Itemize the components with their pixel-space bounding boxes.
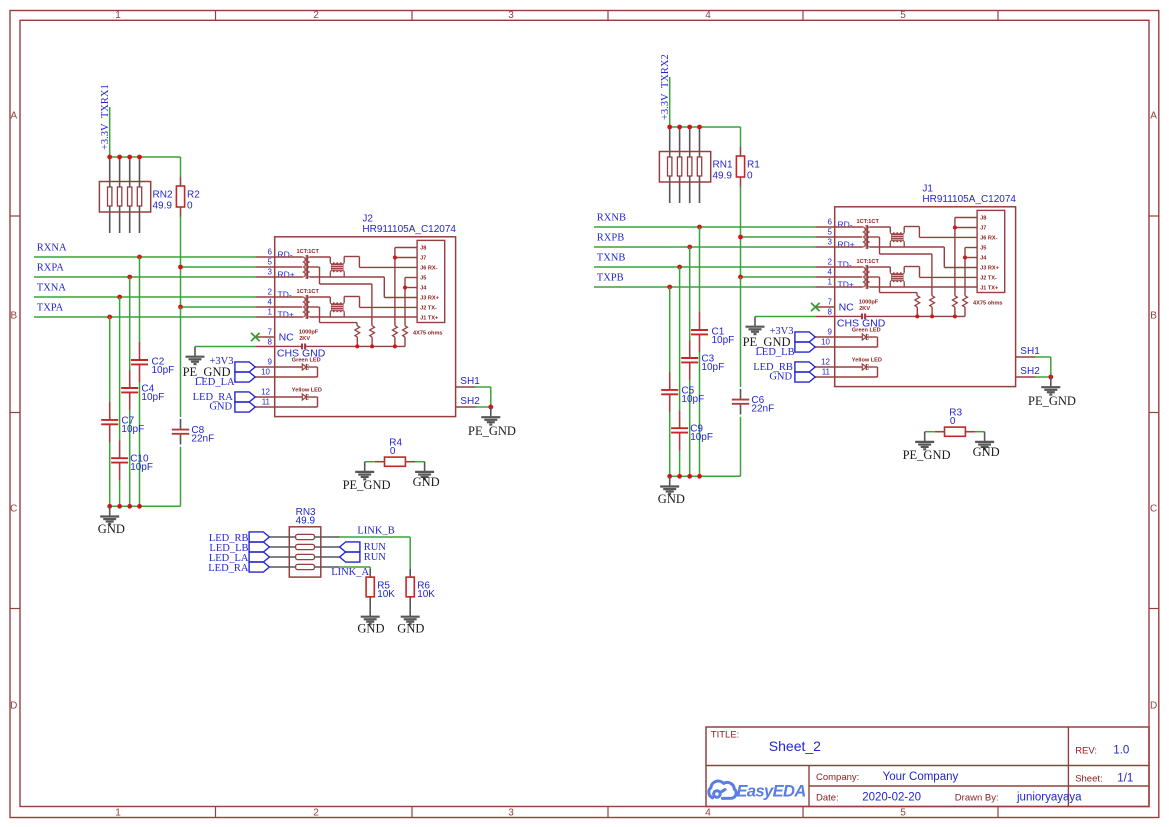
- svg-text:9: 9: [828, 327, 833, 336]
- svg-text:GND: GND: [357, 621, 384, 635]
- svg-text:49.9: 49.9: [153, 201, 173, 212]
- svg-text:3: 3: [828, 237, 833, 246]
- svg-text:PE_GND: PE_GND: [903, 448, 951, 462]
- svg-text:LED_RA: LED_RA: [208, 563, 249, 574]
- svg-text:J4: J4: [420, 286, 427, 292]
- svg-text:3: 3: [508, 10, 514, 21]
- svg-text:22nF: 22nF: [191, 434, 214, 445]
- svg-text:J3 RX+: J3 RX+: [980, 266, 1000, 272]
- svg-text:RXNA: RXNA: [37, 242, 67, 253]
- svg-text:8: 8: [828, 307, 833, 316]
- svg-text:Drawn By:: Drawn By:: [955, 792, 999, 803]
- svg-text:1CT:1CT: 1CT:1CT: [857, 259, 880, 265]
- svg-text:GND: GND: [413, 475, 440, 489]
- svg-text:REV:: REV:: [1075, 745, 1097, 756]
- svg-text:D: D: [10, 701, 17, 712]
- svg-text:3: 3: [268, 267, 273, 276]
- svg-text:J5: J5: [980, 246, 986, 252]
- svg-text:1CT:1CT: 1CT:1CT: [297, 249, 320, 255]
- svg-text:GND: GND: [769, 372, 792, 383]
- svg-text:TXPA: TXPA: [37, 302, 64, 313]
- svg-text:10pF: 10pF: [130, 462, 153, 473]
- svg-text:1000pF: 1000pF: [299, 330, 319, 336]
- svg-text:GND: GND: [973, 445, 1000, 459]
- svg-text:0: 0: [950, 416, 956, 427]
- svg-text:J6 RX-: J6 RX-: [420, 266, 438, 272]
- svg-text:2: 2: [313, 10, 319, 21]
- svg-text:5: 5: [900, 10, 906, 21]
- svg-text:+3V3: +3V3: [209, 356, 233, 367]
- svg-text:A: A: [1150, 111, 1157, 122]
- svg-text:10: 10: [821, 337, 830, 346]
- svg-text:4: 4: [828, 267, 833, 276]
- svg-text:Green LED: Green LED: [292, 357, 321, 363]
- svg-text:RUN: RUN: [364, 552, 387, 563]
- svg-text:B: B: [10, 311, 17, 322]
- svg-text:R2: R2: [187, 190, 200, 201]
- svg-text:4X75 ohms: 4X75 ohms: [973, 301, 1003, 307]
- svg-text:TXPB: TXPB: [597, 272, 624, 283]
- svg-text:J8: J8: [980, 216, 986, 222]
- svg-text:J2 TX-: J2 TX-: [420, 306, 437, 312]
- svg-text:8: 8: [268, 337, 273, 346]
- svg-text:10K: 10K: [377, 589, 395, 600]
- svg-text:J6 RX-: J6 RX-: [980, 236, 998, 242]
- svg-text:C: C: [1150, 504, 1157, 515]
- svg-text:1/1: 1/1: [1117, 772, 1133, 784]
- svg-text:12: 12: [261, 387, 270, 396]
- svg-text:J7: J7: [420, 256, 426, 262]
- svg-text:4: 4: [268, 297, 273, 306]
- svg-text:C: C: [10, 504, 17, 515]
- svg-text:J4: J4: [980, 256, 987, 262]
- svg-text:Company:: Company:: [816, 772, 859, 783]
- svg-text:5: 5: [900, 808, 906, 819]
- svg-text:4: 4: [705, 10, 711, 21]
- svg-text:2KV: 2KV: [859, 306, 870, 312]
- svg-text:RN2: RN2: [153, 190, 173, 201]
- svg-text:TD+: TD+: [278, 310, 294, 320]
- svg-text:TD+: TD+: [838, 280, 854, 290]
- svg-text:+3V3: +3V3: [769, 326, 793, 337]
- svg-text:3: 3: [508, 808, 514, 819]
- svg-text:RXNB: RXNB: [597, 212, 626, 223]
- svg-text:Green LED: Green LED: [852, 327, 881, 333]
- svg-text:7: 7: [828, 297, 833, 306]
- svg-text:4X75 ohms: 4X75 ohms: [413, 331, 443, 337]
- svg-text:J5: J5: [420, 276, 426, 282]
- svg-text:RD+: RD+: [838, 240, 855, 250]
- svg-text:LINK_A: LINK_A: [331, 567, 369, 578]
- svg-text:7: 7: [268, 327, 273, 336]
- svg-text:SH1: SH1: [460, 376, 480, 387]
- svg-text:R1: R1: [747, 160, 760, 171]
- svg-text:0: 0: [390, 446, 396, 457]
- svg-text:A: A: [10, 111, 17, 122]
- svg-text:NC: NC: [839, 301, 855, 313]
- svg-text:11: 11: [262, 397, 271, 406]
- svg-text:10K: 10K: [417, 589, 435, 600]
- svg-text:Yellow LED: Yellow LED: [852, 357, 882, 363]
- svg-text:1CT:1CT: 1CT:1CT: [297, 289, 320, 295]
- svg-text:LED_LB: LED_LB: [756, 347, 795, 358]
- svg-text:HR911105A_C12074: HR911105A_C12074: [922, 194, 1016, 205]
- svg-text:49.9: 49.9: [296, 515, 316, 526]
- svg-text:HR911105A_C12074: HR911105A_C12074: [362, 224, 456, 235]
- svg-text:RXPB: RXPB: [597, 232, 624, 243]
- svg-text:1: 1: [115, 808, 121, 819]
- svg-text:GND: GND: [209, 402, 232, 413]
- svg-text:GND: GND: [98, 522, 125, 536]
- svg-text:EasyEDA: EasyEDA: [737, 783, 806, 801]
- svg-text:2020-02-20: 2020-02-20: [862, 791, 921, 803]
- svg-text:12: 12: [821, 357, 830, 366]
- svg-text:J2: J2: [362, 214, 373, 225]
- svg-text:9: 9: [268, 357, 273, 366]
- svg-text:SH2: SH2: [1020, 366, 1040, 377]
- svg-text:10pF: 10pF: [690, 432, 713, 443]
- svg-text:RN1: RN1: [713, 160, 733, 171]
- svg-text:10pF: 10pF: [152, 365, 175, 376]
- svg-text:0: 0: [187, 201, 193, 212]
- svg-text:B: B: [1150, 311, 1157, 322]
- svg-text:10pF: 10pF: [141, 392, 164, 403]
- svg-text:RD-: RD-: [838, 220, 853, 230]
- svg-text:SH1: SH1: [1020, 346, 1040, 357]
- svg-text:GND: GND: [397, 621, 424, 635]
- svg-text:1CT:1CT: 1CT:1CT: [857, 219, 880, 225]
- svg-text:49.9: 49.9: [713, 171, 733, 182]
- svg-text:10pF: 10pF: [701, 362, 724, 373]
- svg-text:10pF: 10pF: [681, 394, 704, 405]
- svg-text:J1: J1: [922, 184, 933, 195]
- svg-text:Yellow LED: Yellow LED: [292, 387, 322, 393]
- svg-text:Your Company: Your Company: [883, 771, 959, 783]
- svg-text:Date:: Date:: [816, 792, 839, 803]
- svg-text:LINK_B: LINK_B: [357, 526, 394, 537]
- svg-text:10pF: 10pF: [121, 424, 144, 435]
- svg-text:2: 2: [313, 808, 319, 819]
- svg-text:1.0: 1.0: [1113, 744, 1129, 756]
- svg-text:RD+: RD+: [278, 270, 295, 280]
- svg-text:Sheet_2: Sheet_2: [769, 738, 821, 754]
- svg-text:NC: NC: [279, 331, 295, 343]
- svg-text:6: 6: [268, 247, 273, 256]
- svg-text:2: 2: [268, 287, 273, 296]
- svg-text:PE_GND: PE_GND: [468, 424, 516, 438]
- svg-text:J1 TX+: J1 TX+: [980, 286, 999, 292]
- svg-text:4: 4: [705, 808, 711, 819]
- svg-text:Sheet:: Sheet:: [1075, 773, 1102, 784]
- svg-text:2KV: 2KV: [299, 336, 310, 342]
- svg-text:RD-: RD-: [278, 250, 293, 260]
- svg-text:PE_GND: PE_GND: [343, 478, 391, 492]
- svg-text:5: 5: [268, 257, 273, 266]
- svg-text:5: 5: [828, 227, 833, 236]
- svg-text:RXPA: RXPA: [37, 262, 64, 273]
- svg-text:TD-: TD-: [838, 260, 852, 270]
- svg-text:TXNB: TXNB: [597, 252, 626, 263]
- svg-text:TD-: TD-: [278, 290, 292, 300]
- svg-text:PE_GND: PE_GND: [1028, 394, 1076, 408]
- svg-text:J2 TX-: J2 TX-: [980, 276, 997, 282]
- svg-text:J1 TX+: J1 TX+: [420, 316, 439, 322]
- svg-text:TITLE:: TITLE:: [711, 730, 740, 741]
- svg-text:GND: GND: [658, 492, 685, 506]
- svg-text:11: 11: [822, 367, 831, 376]
- svg-text:1: 1: [268, 307, 273, 316]
- svg-text:LED_LA: LED_LA: [195, 377, 235, 388]
- svg-text:1: 1: [115, 10, 121, 21]
- svg-text:SH2: SH2: [460, 396, 480, 407]
- svg-text:J8: J8: [420, 246, 426, 252]
- svg-text:10pF: 10pF: [712, 335, 735, 346]
- svg-text:2: 2: [828, 257, 833, 266]
- svg-text:1: 1: [828, 277, 833, 286]
- svg-text:0: 0: [747, 171, 753, 182]
- svg-text:1000pF: 1000pF: [859, 300, 879, 306]
- svg-text:10: 10: [261, 367, 270, 376]
- svg-text:6: 6: [828, 217, 833, 226]
- svg-text:junioryayaya: junioryayaya: [1016, 791, 1082, 803]
- svg-text:J7: J7: [980, 226, 986, 232]
- svg-text:D: D: [1150, 701, 1157, 712]
- svg-text:J3 RX+: J3 RX+: [420, 296, 440, 302]
- svg-text:22nF: 22nF: [751, 404, 774, 415]
- svg-text:TXNA: TXNA: [37, 282, 67, 293]
